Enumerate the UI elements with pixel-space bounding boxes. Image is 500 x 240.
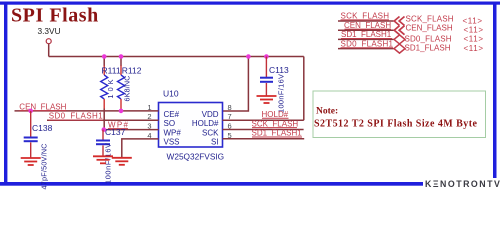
svg-text:47pF/50V/NC: 47pF/50V/NC	[40, 144, 49, 190]
wire CEN_FLASH to pin 1	[15, 110, 159, 112]
note box	[313, 91, 486, 138]
wire SCK_FLASH pin 6	[223, 129, 304, 131]
wire HOLD# pin 7	[223, 119, 304, 121]
svg-text:C137: C137	[105, 127, 126, 137]
power symbol 3.3VU	[38, 26, 61, 44]
net label SD1_FLASH1 (row 3)	[341, 30, 392, 39]
svg-text:6K8/NC: 6K8/NC	[123, 76, 132, 102]
svg-text:<11>: <11>	[463, 16, 483, 25]
wire SD0_FLASH1 to pin 2	[47, 119, 159, 121]
net label SD0_FLASH1 (row 4)	[341, 39, 394, 48]
svg-text:WP#: WP#	[164, 129, 182, 138]
capacitor C138	[24, 111, 53, 190]
net label SCK_FLASH (pin 6)	[252, 119, 299, 128]
capacitor C113	[260, 57, 289, 114]
net label HOLD#	[262, 110, 289, 119]
junction on rail at C113	[264, 54, 269, 59]
wire VDD riser to rail	[223, 57, 249, 112]
svg-text:SD0_FLASH: SD0_FLASH	[405, 34, 452, 43]
svg-text:SO: SO	[164, 119, 176, 128]
ground (VSS)	[112, 158, 132, 165]
svg-text:100nF/16V: 100nF/16V	[277, 74, 286, 113]
junction CEN/C138	[28, 109, 33, 114]
svg-text:SCK_FLASH: SCK_FLASH	[252, 119, 299, 128]
svg-text:CEN_FLASH: CEN_FLASH	[344, 21, 391, 30]
wire SD1_FLASH1 pin 5	[223, 138, 305, 140]
svg-text:SCK_FLASH: SCK_FLASH	[341, 12, 390, 21]
svg-text:CE#: CE#	[164, 110, 180, 119]
svg-text:R111: R111	[102, 66, 121, 76]
wire CEN_FLASH (top right row 2)	[338, 29, 394, 31]
off-page connector SD0_FLASH (diamond)	[394, 35, 405, 44]
net label CEN_FLASH	[19, 102, 66, 111]
svg-text:CEN_FLASH: CEN_FLASH	[19, 102, 66, 111]
net label SD1_FLASH1 (pin 5)	[252, 129, 303, 138]
ground (C113)	[257, 96, 277, 103]
svg-text:Note:: Note:	[316, 107, 338, 117]
net label WP#	[108, 120, 129, 129]
junction WP#/R111/C137	[102, 127, 107, 132]
svg-text:<11>: <11>	[464, 26, 484, 35]
svg-text:HOLD#: HOLD#	[262, 110, 289, 119]
net label SCK_FLASH (row 1)	[341, 12, 390, 21]
wire VSS to ground	[122, 139, 159, 157]
svg-text:<11>: <11>	[464, 35, 484, 44]
svg-text:SCK_FLASH: SCK_FLASH	[406, 14, 454, 23]
off-page connector SCK_FLASH	[394, 17, 404, 26]
off-page connector CEN_FLASH	[394, 26, 404, 35]
capacitor C137	[96, 127, 126, 184]
resistor R111	[101, 57, 121, 130]
svg-text:SD0_FLASH1: SD0_FLASH1	[341, 39, 394, 48]
off-page connector SD1_FLASH (diamond)	[394, 44, 405, 53]
svg-text:SD1_FLASH: SD1_FLASH	[405, 43, 451, 52]
ground (C138)	[21, 158, 41, 165]
svg-text:8: 8	[228, 103, 232, 112]
wire HOLD# riser to rail	[303, 57, 305, 121]
svg-text:HOLD#: HOLD#	[192, 119, 219, 128]
svg-text:SD0_FLASH1: SD0_FLASH1	[49, 112, 104, 121]
wire 3.3VU rail	[49, 56, 304, 58]
svg-text:U10: U10	[163, 89, 179, 99]
junction on rail at VDD riser	[246, 54, 251, 59]
svg-text:VSS: VSS	[164, 138, 180, 147]
svg-text:SPI Flash: SPI Flash	[11, 5, 99, 27]
svg-text:VDD: VDD	[202, 110, 219, 119]
junction CEN/R112	[119, 109, 124, 114]
junction on rail at R111	[102, 54, 107, 59]
net label SD0_FLASH1	[49, 112, 104, 121]
wire SD1_FLASH1 (top right row 3)	[338, 38, 394, 40]
net label CEN_FLASH (row 2)	[344, 21, 391, 30]
svg-text:SCK: SCK	[202, 129, 219, 138]
svg-text:R112: R112	[122, 66, 142, 76]
svg-text:W25Q32FVSIG: W25Q32FVSIG	[167, 152, 225, 162]
wire 3.3VU vertical drop	[48, 44, 50, 57]
wire SCK_FLASH (top right row 1)	[338, 20, 394, 22]
svg-text:<11>: <11>	[464, 44, 484, 53]
svg-text:KΞNOTRONTV: KΞNOTRONTV	[425, 179, 500, 189]
resistor R112	[118, 57, 142, 111]
svg-text:C138: C138	[32, 123, 53, 133]
sheet border frame	[0, 2, 500, 186]
svg-text:3.3VU: 3.3VU	[38, 26, 61, 36]
IC U10 W25Q32FVSIG	[147, 89, 231, 162]
svg-text:C113: C113	[269, 65, 289, 75]
svg-text:SD1_FLASH1: SD1_FLASH1	[252, 129, 303, 138]
junction on rail at R112	[119, 54, 124, 59]
svg-text:CEN_FLASH: CEN_FLASH	[406, 24, 453, 33]
svg-text:SD1_FLASH1: SD1_FLASH1	[341, 30, 392, 39]
wire WP# to pin 3	[104, 129, 159, 131]
ground (C137)	[93, 156, 113, 163]
wire SD0_FLASH1 (top right row 4)	[338, 48, 394, 50]
svg-text:10K: 10K	[106, 79, 115, 98]
svg-text:SI: SI	[211, 138, 219, 147]
svg-text:S2T512 T2 SPI Flash Size 4M By: S2T512 T2 SPI Flash Size 4M Byte	[314, 118, 478, 129]
